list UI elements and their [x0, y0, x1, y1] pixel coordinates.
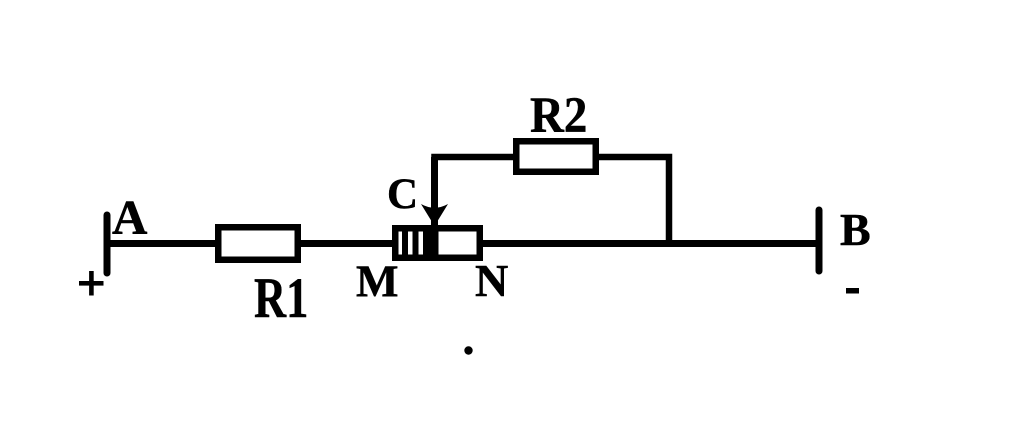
minus polarity mark [846, 288, 859, 294]
svg-text:R2: R2 [530, 86, 587, 143]
plus polarity mark [79, 271, 104, 296]
stray dot mark [464, 346, 472, 354]
wire rheostat N to B [479, 240, 819, 247]
resistor R2 [516, 141, 596, 172]
rheostat wiper column [423, 230, 439, 256]
rheostat hatch bar 1 [402, 230, 408, 256]
rheostat (potentiometer) body [395, 228, 480, 258]
wire A to R1 [104, 240, 218, 247]
rheostat hatch bar 2 [413, 230, 419, 256]
wiper arrowhead [421, 204, 448, 226]
svg-text:M: M [356, 257, 398, 307]
svg-text:N: N [475, 255, 508, 306]
terminal B bar [816, 210, 823, 271]
svg-text:C: C [387, 171, 418, 218]
svg-text:R1: R1 [254, 267, 308, 331]
wire top-left segment of R2 branch [435, 157, 517, 250]
svg-text:B: B [840, 204, 871, 255]
wire R1 to rheostat M [298, 240, 396, 247]
terminal A bar [104, 215, 111, 273]
resistor R1 [218, 227, 298, 260]
svg-text:A: A [112, 190, 148, 245]
wire top-right segment of R2 branch [596, 157, 669, 246]
wiper shaft wire C [431, 157, 438, 252]
